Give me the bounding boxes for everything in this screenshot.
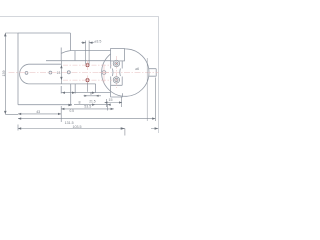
svg-text:53.5: 53.5 [84,105,91,109]
svg-text:13: 13 [57,71,61,75]
svg-text:8: 8 [79,100,81,104]
svg-text:103.5: 103.5 [73,125,82,129]
svg-text:⌀6: ⌀6 [135,67,139,71]
svg-text:⌀3.5: ⌀3.5 [94,40,101,44]
svg-text:43: 43 [36,110,40,114]
svg-text:15: 15 [109,98,113,102]
svg-text:139: 139 [2,71,6,77]
svg-text:0.5: 0.5 [70,109,75,113]
svg-text:21.5: 21.5 [89,99,96,103]
svg-text:8: 8 [90,91,92,95]
